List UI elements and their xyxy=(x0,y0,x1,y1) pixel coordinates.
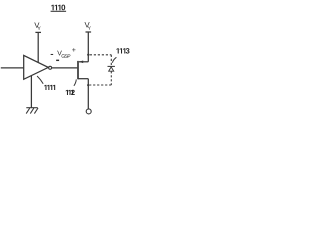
leader line 1112 xyxy=(74,79,76,85)
figure label 1110 xyxy=(51,5,65,11)
op-amp output bubble xyxy=(49,66,52,69)
output terminal circle xyxy=(86,109,91,114)
input wire xyxy=(1,67,24,69)
leader line 1111 xyxy=(37,76,43,84)
transistor Q1112 source lead xyxy=(79,61,88,63)
dashed body-diode box top segment xyxy=(90,54,112,56)
power VY right label xyxy=(85,22,91,30)
transistor Q1112 drain lead xyxy=(78,78,89,80)
underline of 1110 xyxy=(51,10,67,12)
wire drain down to output terminal xyxy=(87,79,89,109)
transistor Q1112 source arrowhead xyxy=(79,61,84,64)
node junction bottom of diode box xyxy=(87,84,89,86)
power VY left terminal bar xyxy=(35,31,41,33)
dashed body-diode box right upper segment xyxy=(110,55,112,66)
label VGSP minus sign xyxy=(51,54,54,55)
label VGSP with plus sign xyxy=(57,48,75,58)
wire VY left to op-amp top xyxy=(37,32,39,62)
power VY right terminal bar xyxy=(86,31,92,33)
label 1112 xyxy=(66,90,75,95)
wire op-amp bottom to ground xyxy=(30,76,32,108)
wire op-amp output to gate xyxy=(52,67,78,69)
label 1111 xyxy=(44,85,55,90)
label 1113 xyxy=(116,48,129,53)
power VY left label xyxy=(34,23,40,31)
leader line 1113 xyxy=(112,57,116,62)
dashed body-diode box bottom segment xyxy=(90,84,112,86)
diode D1113 triangle xyxy=(109,67,114,71)
diode D1113 cathode bar xyxy=(108,65,115,67)
polarity dash below VGSP xyxy=(56,60,59,61)
op-amp U1111 triangle xyxy=(24,55,49,79)
dashed body-diode box right lower segment xyxy=(110,71,112,85)
ground symbol xyxy=(26,108,38,114)
node junction top of diode box xyxy=(87,54,89,56)
transistor Q1112 gate bar xyxy=(77,61,79,79)
wire VY right to source xyxy=(87,32,89,62)
